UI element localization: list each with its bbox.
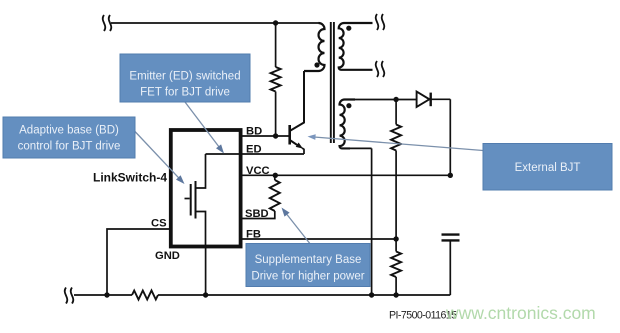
wire FB node to R4 (395, 239, 397, 252)
transformer T1 core (330, 22, 332, 143)
svg-text:Supplementary Base: Supplementary Base (255, 254, 362, 266)
svg-text:VCC: VCC (246, 165, 270, 177)
callout Emitter ED switched FET (120, 54, 250, 102)
svg-text:FET for BJT drive: FET for BJT drive (140, 87, 230, 99)
transformer T1 primary phase dot (314, 62, 319, 67)
callout leader to ED/FET (185, 102, 224, 154)
svg-text:FB: FB (246, 229, 261, 241)
transformer T1 secondary winding (339, 23, 373, 70)
node VCC / diode / capacitor (448, 173, 453, 178)
svg-text:LinkSwitch-4: LinkSwitch-4 (93, 171, 167, 185)
callout External BJT (483, 144, 612, 191)
wire R1 to BD node (275, 92, 277, 137)
wire bottom ground rail (74, 294, 132, 296)
svg-text:Emitter (ED) switched: Emitter (ED) switched (129, 71, 240, 83)
wire FB line (241, 238, 396, 240)
node CS / rail (104, 292, 109, 297)
svg-text:CS: CS (151, 218, 167, 230)
wire BD pin to BJT base (241, 135, 289, 137)
svg-text:BD: BD (246, 126, 262, 138)
wire emitter to ED (302, 148, 304, 154)
MOSFET Q1 gate bar (190, 184, 192, 216)
continuation squiggle bottom-left (65, 288, 74, 304)
wire bias return (371, 148, 373, 295)
diode D1 (417, 92, 451, 107)
node bias return / ground rail (369, 292, 374, 297)
wire divider junction to R3 (395, 100, 397, 125)
wire rail to R1 (275, 23, 277, 67)
svg-text:External BJT: External BJT (515, 162, 581, 174)
node FB / divider (393, 236, 398, 241)
wire diode cathode down to VCC rail (449, 99, 451, 175)
continuation squiggle secondary top (376, 14, 385, 30)
resistor R4 feedback lower (391, 252, 401, 278)
capacitor C1 (442, 235, 460, 241)
svg-text:GND: GND (155, 250, 180, 262)
wire R4 to ground rail (395, 277, 397, 295)
svg-text:Adaptive base (BD): Adaptive base (BD) (19, 125, 119, 137)
IC U1 LinkSwitch-4 (171, 130, 241, 247)
node GND / rail (203, 292, 208, 297)
transformer T1 bias winding (340, 100, 356, 149)
resistor R3 feedback upper (391, 125, 401, 151)
svg-text:www.cntronics.com: www.cntronics.com (445, 303, 596, 323)
transformer T1 bias phase dot (346, 103, 351, 108)
callout leader to BD control (135, 132, 185, 185)
resistor R5 current sense (132, 291, 158, 300)
svg-text:SBD: SBD (245, 208, 269, 220)
MOSFET Q1 drain lead (196, 154, 206, 188)
callout leader to SBD resistor (282, 208, 312, 246)
wire ED pin to emitter (241, 153, 304, 155)
transistor Q2 collector (291, 71, 305, 131)
transformer T1 secondary phase dot (346, 26, 351, 31)
svg-text:Drive for higher power: Drive for higher power (251, 271, 364, 283)
wire VCC rail (241, 174, 450, 176)
node BD (273, 133, 278, 138)
continuation squiggle top-left (103, 15, 112, 31)
node bias winding / divider junction (393, 97, 398, 102)
continuation squiggle secondary bottom (376, 61, 385, 77)
wire R2 to SBD pin (241, 211, 275, 219)
wire CS (107, 229, 169, 295)
resistor R1 base pull-up (271, 67, 281, 92)
node R4 / ground rail (393, 292, 398, 297)
wire capacitor to ground rail (449, 240, 451, 295)
wire ground rail right section (158, 294, 450, 296)
MOSFET Q1 gate lead (185, 198, 190, 200)
node top rail / R1 junction (273, 20, 278, 25)
svg-text:ED: ED (246, 144, 262, 156)
MOSFET Q1 channel bar (195, 181, 197, 219)
callout Supplementary Base Drive (246, 244, 370, 287)
svg-text:control for BJT drive: control for BJT drive (18, 141, 121, 153)
transistor Q2 emitter (291, 141, 300, 147)
wire top rail (111, 22, 319, 24)
transistor Q2 external BJT base bar (288, 125, 291, 145)
MOSFET Q1 internal: drain to ED line (206, 153, 242, 155)
wire VCC node to R2 (274, 175, 276, 180)
node VCC / R2 (273, 173, 278, 178)
wire R3 to FB node (395, 151, 397, 240)
callout leader to external BJT (308, 134, 484, 150)
transformer T1 primary winding (304, 23, 325, 71)
resistor R2 supplementary base drive (270, 180, 280, 211)
wire GND pin to rail (205, 248, 207, 295)
MOSFET Q1 source lead (196, 212, 206, 249)
callout Adaptive base BD control (3, 117, 135, 158)
